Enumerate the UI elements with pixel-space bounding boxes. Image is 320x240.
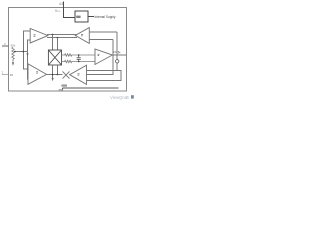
multiplier U1 box (48, 50, 61, 65)
wire A2 lower to right vertical (89, 39, 113, 41)
node dot at X input 2 (57, 37, 59, 39)
current direction arrowhead on vertical (26, 53, 28, 56)
op-amp A1 input buffer (30, 28, 48, 43)
A4 internal mark (77, 74, 79, 75)
svg-text:.E: .E (125, 95, 129, 100)
node dot R1/C1 (78, 54, 80, 56)
svg-text:3: 3 (4, 42, 6, 46)
svg-text:50k: 50k (11, 44, 16, 48)
wire multiplier top input 2 (56, 38, 58, 50)
resistor R1 (62, 54, 96, 56)
wire multiplier bottom 2 (56, 65, 58, 75)
wire right vertical V1 (86, 40, 113, 75)
wire A1 upper input (23, 31, 30, 69)
node dot osc 2 (57, 74, 59, 76)
GND pin number (59, 89, 64, 91)
wire regulator output (88, 16, 94, 18)
ground pin stub (62, 88, 64, 91)
op-amp A5 second input buffer (28, 64, 47, 85)
op-amp A2 feedback buffer (points left) (75, 28, 89, 44)
current source I2 arrowhead (52, 78, 54, 81)
svg-text:(4: (4 (118, 50, 121, 54)
wire bias rail left (14, 51, 27, 53)
IC boundary box (8, 7, 126, 91)
input pin 1 wire (2, 45, 9, 47)
wire A1 output to A2 (double run) (47, 34, 77, 37)
wire A2 upper to right vertical (89, 31, 117, 33)
capacitor C1 (77, 55, 81, 62)
op-amp A3 output amplifier (95, 49, 112, 65)
resistor R2 (62, 60, 96, 62)
wire A1 lower input (27, 40, 30, 79)
regulator U2 (75, 11, 88, 22)
node dot at X input 1 (52, 34, 54, 36)
ground rail (63, 87, 119, 89)
wire A5 output (47, 74, 63, 76)
node dot bias/left vertical (23, 51, 25, 53)
svg-text:Internal Supply: Internal Supply (95, 15, 116, 19)
input pin 2 wire (2, 73, 9, 75)
resistor R3 vertical (12, 47, 14, 62)
regulator U2 label (76, 16, 80, 18)
A2 internal mark (81, 35, 83, 36)
svg-text:VCC: VCC (55, 9, 61, 13)
node dot bias/resistor (14, 51, 16, 53)
svg-text:4.5: 4.5 (59, 2, 64, 6)
op-amp A4 (points left) (70, 65, 87, 84)
A5 polarity marks (36, 72, 38, 73)
crossed coupling wires (63, 71, 70, 78)
A3 internal mark (97, 54, 99, 55)
node dot R2/C1 (78, 61, 80, 63)
wire V3 lower right (87, 70, 121, 80)
wire multiplier bottom 1 with current source arrow (52, 65, 54, 78)
GND label (61, 84, 67, 86)
current source I1 arrowhead (12, 62, 14, 66)
wire multiplier top input 1 (52, 34, 54, 50)
node dot osc 1 (52, 74, 54, 76)
Vcc pin wire (64, 1, 76, 17)
wire A3 output to OUT pin (112, 54, 126, 56)
pin circle terminal (116, 60, 119, 63)
A1 polarity marks (33, 35, 35, 36)
wire right vertical V2 (86, 32, 117, 70)
svg-text:IN: IN (10, 73, 13, 77)
